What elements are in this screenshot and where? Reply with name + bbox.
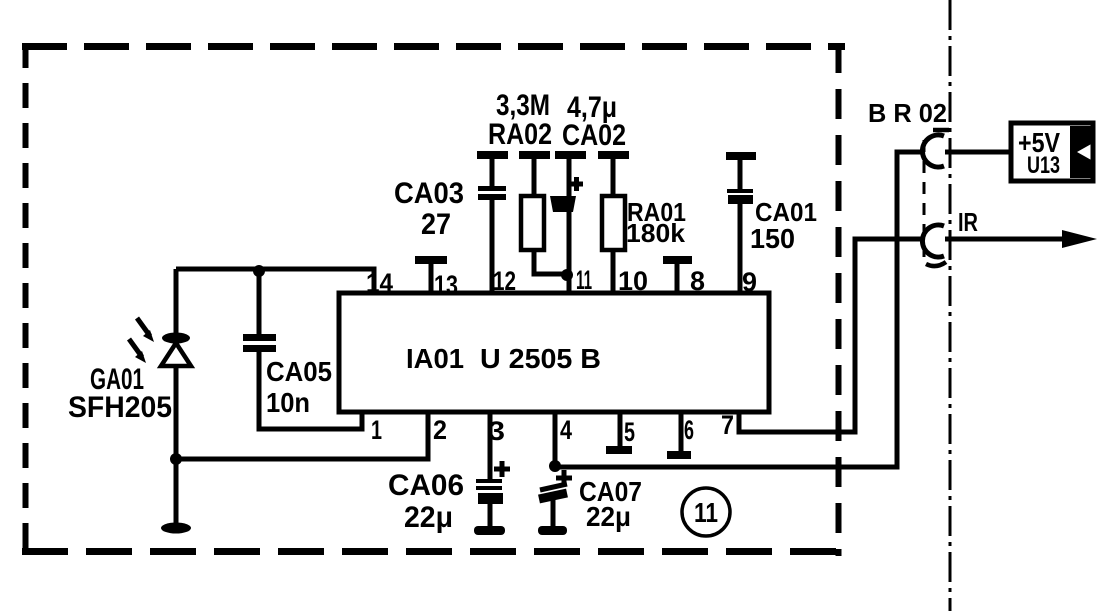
terminal bar CA02 column — [555, 151, 586, 159]
pin 5 terminal bar — [606, 446, 632, 454]
junction pin 4 node — [549, 460, 561, 472]
terminal bar CA03 column — [477, 151, 508, 159]
svg-text:11: 11 — [694, 497, 718, 528]
terminal blob CA06 bottom — [474, 526, 505, 535]
capacitor CA03 plates — [478, 186, 506, 200]
terminal bar CA01 column — [726, 152, 756, 160]
terminal bar RA02 column — [519, 151, 550, 159]
svg-text:SFH205: SFH205 — [68, 391, 172, 424]
photodiode light arrowhead upper — [143, 330, 154, 342]
wire RA02 bottom bend to pin 11 — [534, 250, 566, 274]
junction pin 11 — [561, 269, 573, 281]
terminal bar above pin 8 — [663, 256, 692, 264]
svg-text:22μ: 22μ — [404, 501, 453, 534]
wire CA03 to pin 12 — [490, 200, 495, 293]
svg-text:U 2505 B: U 2505 B — [480, 343, 601, 374]
photodiode light arrow lower — [129, 339, 142, 357]
svg-text:CA03: CA03 — [394, 177, 464, 210]
+5V flag notch — [1070, 126, 1093, 178]
terminal blob CA07 bottom — [538, 526, 567, 535]
connector BR02 body dashed line — [923, 140, 926, 262]
svg-text:10n: 10n — [266, 387, 310, 418]
svg-text:IA01: IA01 — [406, 343, 464, 374]
capacitor CA02 top lead — [567, 157, 572, 196]
svg-text:27: 27 — [421, 208, 451, 241]
photodiode GA01 top lead — [174, 269, 179, 334]
photodiode GA01 cathode bar — [162, 333, 190, 344]
capacitor CA07 slanted plates — [539, 484, 567, 499]
resistor RA02 body — [521, 196, 544, 250]
svg-text:U13: U13 — [1027, 152, 1060, 179]
wire pin 7 to IR line — [739, 239, 922, 432]
svg-text:8: 8 — [690, 266, 705, 296]
wire IR line — [945, 237, 1068, 242]
svg-text:180k: 180k — [626, 218, 686, 248]
photodiode light arrow upper — [137, 318, 150, 336]
resistor RA01 body — [602, 196, 625, 250]
IR arrowhead — [1062, 230, 1097, 248]
CA06 bottom lead — [488, 503, 493, 527]
svg-text:7: 7 — [721, 410, 734, 440]
capacitor CA06 thick plate — [478, 493, 503, 504]
CA02 polarity plus mark — [570, 177, 583, 191]
CA06 polarity plus mark — [494, 461, 510, 477]
capacitor CA05 top lead — [257, 269, 262, 336]
svg-text:13: 13 — [434, 270, 458, 300]
wire CA01 to pin 9 — [738, 204, 743, 293]
svg-text:12: 12 — [493, 266, 516, 296]
connector BR02 socket bottom tail — [926, 262, 946, 266]
svg-text:4: 4 — [560, 415, 572, 445]
photodiode GA01 triangle — [161, 343, 191, 366]
pin 6 terminal bar — [667, 451, 691, 459]
terminal bar above pin 13 — [415, 256, 447, 264]
pin 4 stub — [553, 412, 558, 467]
connector BR02 socket bottom — [922, 225, 944, 257]
connector BR02 socket top — [922, 135, 944, 167]
svg-text:IR: IR — [958, 207, 978, 237]
svg-text:CA05: CA05 — [266, 356, 332, 387]
terminal bar RA01 column — [598, 151, 629, 159]
svg-text:14: 14 — [366, 268, 393, 298]
resistor RA01 top lead — [611, 157, 616, 196]
photodiode light arrowhead lower — [135, 351, 146, 363]
capacitor CA01 plates — [727, 189, 753, 204]
pin 8 stub — [675, 262, 680, 293]
wire +5V line into box — [945, 150, 1011, 155]
capacitor C A03 top lead — [490, 157, 495, 187]
sheet reference circle 11 — [682, 488, 730, 536]
svg-text:3: 3 — [488, 416, 505, 446]
wire supply rail to pin 14 — [176, 269, 374, 293]
connector BR02 socket top tail — [933, 128, 949, 133]
wire CA02 to pin 11 — [567, 210, 572, 293]
svg-text:2: 2 — [433, 415, 447, 445]
wire GA01 cathode down — [174, 366, 179, 527]
junction GA01 node — [170, 453, 182, 465]
svg-text:9: 9 — [742, 267, 757, 297]
CA07 polarity plus mark — [556, 470, 572, 486]
resistor RA02 top lead — [532, 157, 537, 196]
svg-text:6: 6 — [684, 415, 694, 445]
wire pin 4 to right — [555, 152, 922, 467]
svg-text:11: 11 — [576, 265, 592, 295]
svg-text:B R 02: B R 02 — [868, 98, 947, 128]
capacitor CA02 electrolytic plate — [550, 196, 576, 212]
module boundary dashed box — [22, 43, 845, 556]
pin 5 stub — [618, 412, 623, 447]
svg-text:1: 1 — [371, 415, 382, 445]
IC U1 IA01 U2505B body — [339, 293, 769, 412]
CA07 bottom lead — [551, 500, 556, 527]
svg-text:22μ: 22μ — [586, 501, 631, 532]
board edge chain line — [949, 0, 952, 611]
capacitor CA05 plates — [243, 334, 276, 352]
wire RA01 to pin 10 — [611, 250, 616, 293]
wire CA05 to pin 1 — [259, 352, 362, 429]
svg-text:150: 150 — [750, 223, 795, 254]
terminal blob GA01 bottom — [161, 523, 191, 534]
svg-text:RA02: RA02 — [488, 118, 552, 151]
svg-text:CA02: CA02 — [562, 119, 626, 152]
capacitor CA01 top lead — [738, 158, 743, 190]
svg-text:5: 5 — [624, 417, 635, 447]
junction CA05 top — [253, 265, 265, 277]
pin 6 stub — [679, 412, 684, 452]
wire GA01 to pin 2 — [176, 412, 428, 459]
capacitor CA06 top lead pin 3 — [488, 412, 493, 481]
+5V U13 flag box — [1011, 123, 1093, 181]
svg-text:CA06: CA06 — [388, 469, 464, 502]
capacitor CA06 thin plates — [476, 479, 502, 490]
pin 13 stub — [429, 262, 434, 293]
svg-text:10: 10 — [618, 266, 648, 296]
